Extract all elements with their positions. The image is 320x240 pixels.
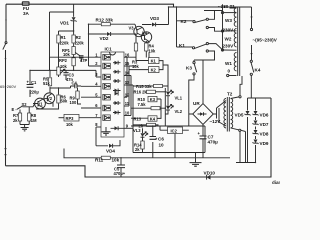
svg-text:10k: 10k	[60, 64, 68, 69]
svg-text:V2: V2	[47, 96, 53, 101]
svg-text:2k: 2k	[135, 147, 140, 152]
svg-text:V3: V3	[129, 26, 135, 31]
svg-text:C1: C1	[31, 80, 37, 85]
svg-text:VD4: VD4	[106, 148, 115, 153]
svg-text:R16 2k: R16 2k	[134, 90, 148, 95]
svg-text:220µ: 220µ	[30, 90, 40, 95]
svg-text:R2: R2	[76, 35, 82, 40]
svg-text:RP3: RP3	[66, 116, 75, 121]
svg-text:10k: 10k	[63, 52, 71, 57]
svg-text:K2: K2	[181, 19, 187, 24]
svg-text:R11: R11	[95, 158, 104, 163]
svg-text:VL2: VL2	[175, 109, 183, 114]
svg-text:VD5: VD5	[235, 112, 244, 117]
svg-text:470µ+: 470µ+	[114, 171, 126, 176]
svg-text:K4: K4	[150, 116, 156, 121]
svg-text:V1: V1	[38, 101, 44, 106]
svg-text:VD3: VD3	[150, 16, 159, 21]
svg-text:10k: 10k	[66, 122, 74, 127]
svg-text:51k: 51k	[43, 81, 51, 86]
svg-text:K1: K1	[179, 43, 185, 48]
svg-text:50k: 50k	[61, 99, 69, 104]
svg-text:100: 100	[70, 100, 78, 105]
svg-text:C4: C4	[72, 80, 78, 85]
svg-text:10k: 10k	[149, 48, 157, 53]
svg-text:C6: C6	[158, 136, 164, 141]
svg-text:W2: W2	[225, 36, 232, 41]
svg-text:VD6: VD6	[260, 113, 269, 118]
svg-text:10k: 10k	[112, 158, 120, 163]
svg-text:1M: 1M	[31, 118, 37, 123]
svg-text:K3: K3	[186, 66, 192, 71]
svg-text:220k: 220k	[60, 41, 70, 46]
svg-text:VD9: VD9	[260, 141, 269, 146]
svg-text:0: 0	[228, 69, 231, 74]
svg-text:R1: R1	[61, 35, 67, 40]
svg-text:RP2: RP2	[59, 58, 68, 63]
svg-text:10: 10	[125, 111, 130, 116]
svg-text:K3: K3	[150, 97, 156, 102]
svg-text:K1: K1	[151, 59, 157, 64]
svg-text:dian: dian	[272, 180, 280, 185]
svg-text:47P: 47P	[80, 58, 88, 63]
svg-text:W1: W1	[225, 61, 232, 66]
svg-text:VD8: VD8	[260, 132, 269, 137]
svg-text:VD10: VD10	[204, 170, 216, 175]
svg-text:VD7: VD7	[260, 122, 269, 127]
svg-text:230V: 230V	[223, 44, 235, 49]
svg-text:IC1: IC1	[105, 47, 113, 52]
svg-text:3A: 3A	[23, 11, 30, 16]
svg-text:T2: T2	[227, 92, 233, 97]
svg-text:65~260V: 65~260V	[0, 84, 16, 89]
svg-text:7.5k: 7.5k	[138, 102, 147, 107]
svg-text:K2: K2	[151, 68, 157, 73]
svg-text:E -: E -	[12, 107, 18, 112]
svg-text:V4: V4	[142, 30, 148, 35]
svg-text:230V: 230V	[223, 28, 235, 33]
svg-text:VL3: VL3	[133, 128, 141, 133]
svg-text:~12V: ~12V	[210, 119, 222, 124]
svg-text:470µ: 470µ	[208, 139, 219, 144]
svg-text:UR: UR	[193, 101, 200, 106]
svg-text:IC2: IC2	[171, 128, 178, 133]
svg-text:R13: R13	[134, 117, 142, 122]
svg-text:R15 33k: R15 33k	[136, 84, 152, 89]
svg-text:R12 33k: R12 33k	[96, 18, 114, 23]
svg-text:VD1: VD1	[60, 21, 69, 26]
svg-text:16: 16	[125, 52, 130, 57]
svg-text:W3: W3	[225, 18, 232, 23]
svg-text:2k: 2k	[13, 118, 18, 123]
svg-text:K4: K4	[255, 68, 261, 73]
svg-text:S2: S2	[22, 102, 28, 107]
svg-text:220k: 220k	[75, 41, 85, 46]
svg-text:~(95~230)V: ~(95~230)V	[253, 38, 278, 43]
svg-text:VD2: VD2	[100, 36, 109, 41]
svg-text:10: 10	[159, 142, 165, 147]
svg-text:VL1: VL1	[175, 96, 183, 101]
